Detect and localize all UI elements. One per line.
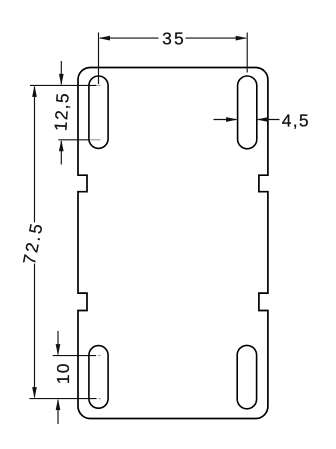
svg-text:4,5: 4,5 xyxy=(282,111,310,131)
svg-text:35: 35 xyxy=(162,28,186,48)
svg-text:72.5: 72.5 xyxy=(19,220,47,266)
svg-text:10: 10 xyxy=(53,362,73,384)
svg-text:12,5: 12,5 xyxy=(50,91,72,131)
